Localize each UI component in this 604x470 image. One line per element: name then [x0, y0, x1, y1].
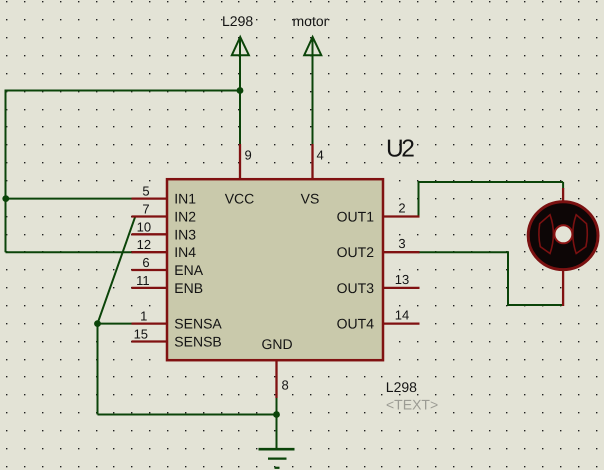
svg-text:11: 11: [136, 273, 150, 288]
svg-text:14: 14: [395, 308, 409, 323]
svg-text:L298: L298: [222, 13, 253, 29]
svg-text:OUT1: OUT1: [337, 209, 375, 225]
svg-text:<TEXT>: <TEXT>: [386, 396, 438, 412]
svg-text:6: 6: [142, 255, 149, 270]
svg-text:7: 7: [142, 202, 149, 217]
svg-text:5: 5: [142, 184, 149, 199]
svg-text:VS: VS: [301, 191, 320, 207]
svg-text:12: 12: [137, 237, 151, 252]
svg-text:L298: L298: [386, 379, 417, 395]
svg-text:IN4: IN4: [174, 244, 196, 260]
svg-text:OUT3: OUT3: [337, 280, 375, 296]
svg-text:U2: U2: [386, 136, 414, 163]
svg-text:8: 8: [282, 378, 289, 393]
svg-text:ENB: ENB: [174, 280, 203, 296]
svg-text:SENSA: SENSA: [174, 316, 222, 332]
svg-text:IN2: IN2: [174, 209, 196, 225]
svg-text:OUT2: OUT2: [337, 244, 375, 260]
svg-text:9: 9: [245, 148, 252, 163]
svg-text:IN1: IN1: [174, 191, 196, 207]
svg-text:SENSB: SENSB: [174, 334, 221, 350]
svg-text:1: 1: [140, 309, 147, 324]
svg-text:IN3: IN3: [174, 226, 196, 242]
svg-text:4: 4: [317, 148, 324, 163]
svg-text:3: 3: [398, 236, 405, 251]
svg-text:VCC: VCC: [225, 191, 255, 207]
svg-text:15: 15: [134, 327, 148, 342]
svg-text:2: 2: [398, 201, 405, 216]
svg-text:10: 10: [137, 219, 151, 234]
svg-text:ENA: ENA: [174, 262, 203, 278]
svg-text:GND: GND: [261, 336, 292, 352]
svg-text:13: 13: [395, 272, 409, 287]
svg-text:OUT4: OUT4: [337, 316, 375, 332]
svg-text:motor: motor: [293, 13, 329, 29]
